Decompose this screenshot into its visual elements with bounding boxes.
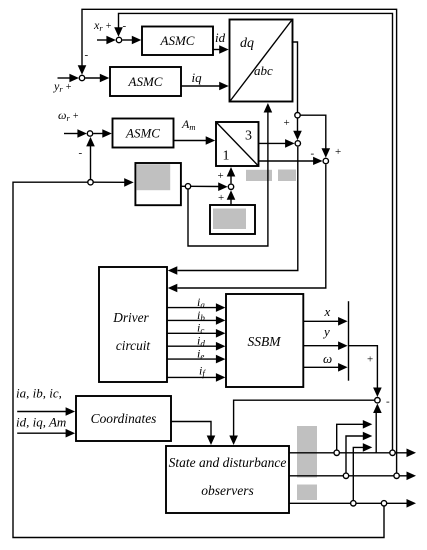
svg-text:ASMC: ASMC bbox=[125, 126, 160, 141]
block ASMC3 bbox=[113, 119, 174, 148]
node N8 on output3 bbox=[351, 501, 356, 506]
wire S3 to ASMC3 bbox=[93, 133, 104, 135]
block State and disturbance observers bbox=[166, 446, 289, 513]
block SSBM bbox=[226, 294, 303, 387]
wire stem up into S7 bbox=[375, 413, 377, 453]
wire S2 to ASMC2 bbox=[85, 77, 101, 79]
block integrator gray placeholder 1 bbox=[135, 163, 181, 205]
svg-text:+: + bbox=[218, 170, 224, 182]
gray placeholder bar beside 3/1 block (right part) bbox=[278, 170, 296, 182]
wire Coordinates output down into observers bbox=[171, 422, 211, 437]
wire main position feedback (from N9 along bottom and left up to gray box1) bbox=[13, 182, 384, 537]
gray placeholder bar beside 3/1 block (left part) bbox=[246, 170, 272, 181]
svg-text:id, iq, Am: id, iq, Am bbox=[16, 415, 66, 430]
svg-text:id: id bbox=[215, 30, 226, 45]
node N6 on output2 bbox=[343, 473, 348, 478]
svg-text:Coordinates: Coordinates bbox=[91, 411, 157, 426]
summing junction S7 bbox=[375, 398, 380, 403]
wire gray box2 up into S6 bbox=[230, 199, 232, 205]
wire iq output ASMC2 to dq block bbox=[181, 85, 221, 87]
node N2 bbox=[185, 184, 190, 189]
svg-text:-: - bbox=[311, 148, 315, 160]
block ASMC1 bbox=[142, 27, 213, 56]
wire driver output if to SSBM bbox=[167, 376, 217, 378]
wire riser 3 from output3 node to stem bbox=[353, 447, 364, 500]
svg-text:SSBM: SSBM bbox=[248, 334, 282, 349]
node N7 on output2 (outer feedback tap) bbox=[394, 473, 399, 478]
diagonal of dq block bbox=[231, 21, 292, 101]
junction bar for SSBM outputs bbox=[348, 301, 350, 381]
wire S7 left and down into observers bbox=[234, 400, 375, 436]
wire N3 to gray box1 input bbox=[93, 181, 125, 183]
gray placeholder bar over observers outputs (lower) bbox=[297, 485, 317, 501]
wire 3/1 bottom output to S5 bbox=[259, 160, 314, 162]
svg-text:ω: ω bbox=[323, 351, 332, 366]
summing junction S6 bbox=[228, 184, 233, 189]
wire observer output 3 bbox=[289, 502, 407, 504]
svg-text:dq: dq bbox=[240, 36, 254, 51]
node N9 on output3 (bottom feedback tap) bbox=[381, 501, 386, 506]
svg-text:circuit: circuit bbox=[116, 338, 151, 353]
summing junction S1 bbox=[116, 37, 121, 42]
wire Am output ASMC3 to 3/1 block bbox=[174, 140, 208, 142]
wire id output ASMC1 to dq block bbox=[213, 49, 221, 51]
svg-text:-: - bbox=[386, 396, 390, 408]
svg-text:-: - bbox=[79, 147, 83, 159]
wire input dq currents to Coordinates bbox=[17, 432, 66, 434]
svg-text:+: + bbox=[367, 354, 373, 366]
svg-text:abc: abc bbox=[254, 63, 273, 78]
wire riser 2 from output2 node to stem bbox=[346, 436, 364, 473]
wire SSBM output x to bar bbox=[303, 320, 339, 322]
wire N2 to S6 bbox=[191, 185, 219, 187]
wire N1 right and down to S5 bbox=[300, 115, 326, 149]
wire driver output ia to SSBM bbox=[167, 307, 217, 309]
wire S1 to ASMC1 bbox=[122, 39, 133, 41]
node yr reference input wire bbox=[58, 77, 71, 79]
wire input currents to Coordinates bbox=[17, 411, 66, 413]
wire bar output right and down to S7 bbox=[349, 346, 378, 389]
summing junction S5 bbox=[323, 158, 328, 163]
svg-text:ASMC: ASMC bbox=[128, 74, 163, 89]
wire observer output 2 bbox=[289, 475, 407, 477]
svg-text:observers: observers bbox=[201, 483, 254, 498]
node xr reference input wire bbox=[97, 39, 108, 41]
node wr reference input wire bbox=[64, 133, 79, 135]
wire SSBM output w to bar bbox=[303, 366, 339, 368]
svg-text:iq: iq bbox=[192, 70, 203, 85]
wire dq output down right side bbox=[292, 42, 298, 113]
svg-text:3: 3 bbox=[245, 129, 252, 144]
wire outer top feedback (observer output 2 to sum S2) bbox=[82, 9, 397, 476]
wire SSBM output y to bar bbox=[303, 345, 339, 347]
svg-text:-: - bbox=[123, 20, 127, 32]
wire riser 1 from output1 node to stem bbox=[337, 424, 364, 450]
wire S5 down and left into Driver circuit bbox=[178, 164, 326, 288]
wire driver output ie to SSBM bbox=[167, 358, 217, 360]
block dq/abc transform bbox=[230, 20, 293, 102]
block ASMC2 bbox=[110, 67, 181, 96]
wire observer output 1 bbox=[289, 452, 407, 454]
svg-text:ASMC: ASMC bbox=[160, 33, 195, 48]
svg-text:State and disturbance: State and disturbance bbox=[169, 455, 287, 470]
svg-text:xr +: xr + bbox=[93, 18, 112, 33]
wire S6 up into 3/1 block bottom bbox=[230, 176, 232, 183]
summing junction S3 bbox=[87, 131, 92, 136]
wire feedback from N3 up into S3 bbox=[90, 146, 92, 180]
wire gray box1 output to node N2 bbox=[181, 185, 185, 187]
wire driver output id to SSBM bbox=[167, 345, 217, 347]
gray placeholder bar over observers outputs (upper) bbox=[297, 426, 317, 478]
block Coordinates bbox=[76, 396, 171, 441]
wire N1 down to S4 bbox=[297, 118, 299, 132]
svg-text:y: y bbox=[322, 324, 330, 339]
node N3 bbox=[88, 180, 93, 185]
wire S4 down and left into Driver circuit bbox=[178, 147, 298, 271]
summing junction S2 bbox=[79, 75, 84, 80]
summing junction S4 bbox=[295, 141, 300, 146]
wire driver output ib to SSBM bbox=[167, 319, 217, 321]
node N4 on output1 bbox=[334, 450, 339, 455]
svg-text:+: + bbox=[335, 146, 341, 158]
block Driver circuit bbox=[99, 267, 167, 382]
block 3/1 converter bbox=[216, 122, 259, 166]
svg-text:ia, ib, ic,: ia, ib, ic, bbox=[16, 386, 62, 401]
wire N2 loop down right and up into dq bottom bbox=[188, 112, 268, 247]
diagonal of 3/1 block bbox=[217, 123, 258, 165]
node N5 on output1 (inner feedback tap) bbox=[390, 450, 395, 455]
block gray placeholder 2 bbox=[210, 205, 255, 234]
wire 3/1 top output to S4 bbox=[259, 142, 287, 144]
node N1 bbox=[295, 113, 300, 118]
svg-text:1: 1 bbox=[223, 149, 230, 164]
svg-text:x: x bbox=[324, 304, 331, 319]
svg-text:-: - bbox=[85, 49, 89, 61]
svg-text:+: + bbox=[218, 192, 224, 204]
svg-text:Driver: Driver bbox=[112, 310, 149, 325]
svg-text:+: + bbox=[284, 117, 290, 129]
svg-text:yr +: yr + bbox=[53, 79, 72, 94]
wire inner top feedback (observer output 1 to sum S1) bbox=[119, 13, 393, 452]
wire driver output ic to SSBM bbox=[167, 332, 217, 334]
